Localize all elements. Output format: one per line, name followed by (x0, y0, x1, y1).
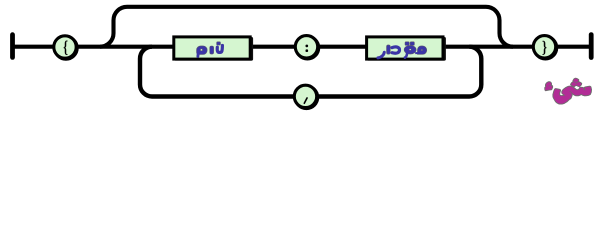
terminal circle , (comma) on loop (295, 86, 317, 108)
label مقدار : qaf head (404, 46, 416, 54)
label نام : noon cup (217, 46, 222, 53)
wire: main horizontal line (13, 45, 592, 49)
terminal circle } (close brace) (534, 37, 556, 59)
terminal circle : (colon) (296, 37, 318, 59)
terminal circle { (open brace) (55, 37, 77, 59)
caption شيء : sheen-yeh body (554, 87, 591, 103)
label مقدار : qaf dots (405, 42, 409, 45)
label مقدار : qaf tail (405, 54, 407, 58)
caption شيء : sheen dots (571, 79, 581, 86)
label نام : meem head (197, 46, 207, 54)
wire: bottom comma repeat loop (140, 47, 481, 97)
end terminal bar (589, 35, 594, 58)
label مقدار : meem head (418, 46, 427, 54)
caption شيء : hamza (546, 83, 552, 90)
box: value (367, 37, 446, 61)
box: name (174, 37, 253, 61)
label نام : noon dot (217, 42, 220, 45)
label مقدار : alef (387, 45, 390, 54)
label مقدار : meem-qaf connector (415, 52, 418, 54)
label مقدار : dal (392, 47, 400, 53)
colon dots (306, 45, 309, 48)
label مقدار : reh (378, 52, 384, 58)
label نام : meem tail (196, 54, 199, 57)
comma tick (304, 98, 307, 103)
wire: top bypass branch (skip members) (100, 7, 513, 47)
label نام : alef (210, 46, 213, 54)
start terminal bar (10, 35, 15, 58)
